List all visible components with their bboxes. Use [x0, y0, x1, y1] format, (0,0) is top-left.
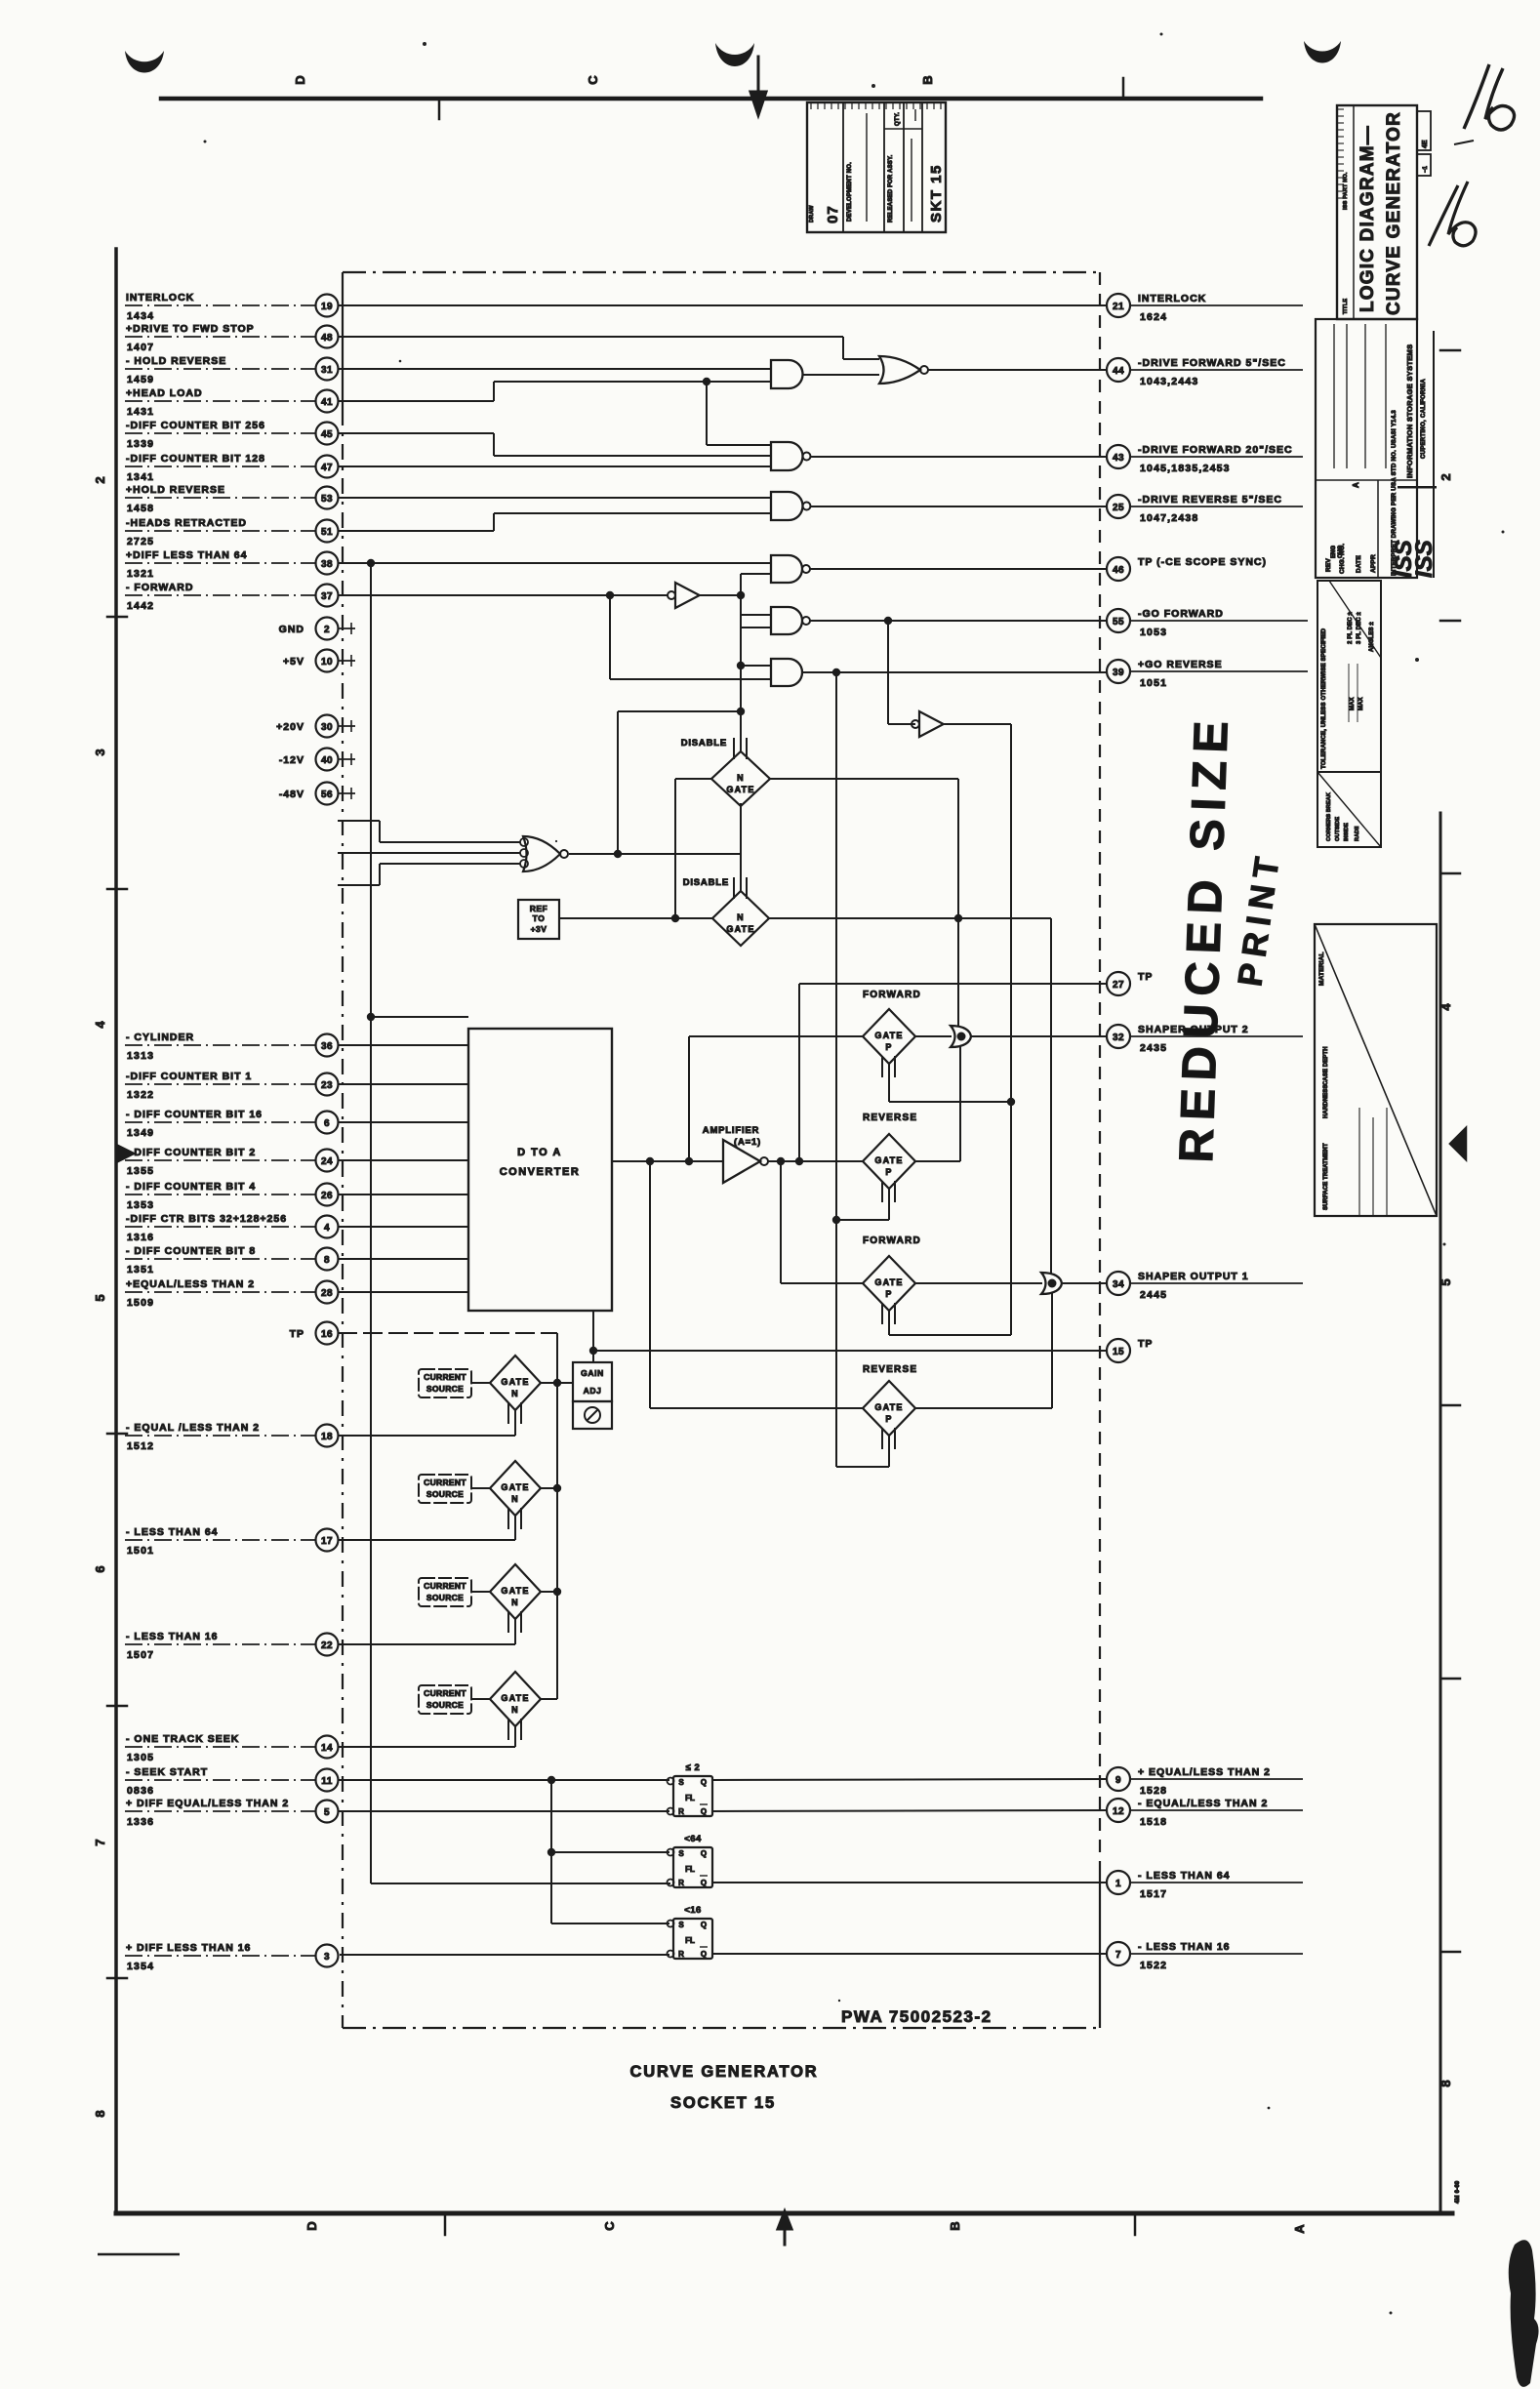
svg-text:CHG: CHG: [1338, 545, 1344, 558]
svg-text:- DIFF COUNTER BIT 8: - DIFF COUNTER BIT 8: [126, 1245, 256, 1257]
svg-text:1339: 1339: [127, 438, 154, 450]
svg-text:-48V: -48V: [279, 789, 304, 800]
pin 48 +DRIVE TO FWD STOP input: [125, 323, 339, 353]
wire net gate N common bus: [541, 1379, 561, 1699]
svg-text:1051: 1051: [1140, 677, 1167, 689]
svg-text:N: N: [511, 1389, 519, 1398]
wire net counter bus top input to D to A: [367, 1013, 468, 1021]
gate U8 NAND output to pin55 -GO FORWARD: [771, 607, 1107, 634]
pin 32 SHAPER OUTPUT 2 output: [1107, 1024, 1303, 1054]
svg-text:+ DIFF LESS THAN 16: + DIFF LESS THAN 16: [126, 1942, 251, 1954]
svg-text:1517: 1517: [1140, 1888, 1167, 1900]
svg-text:2 PL DEC ±: 2 PL DEC ±: [1348, 612, 1354, 644]
amplifier U13 (A=1): [703, 1125, 768, 1183]
wire net N gate1 output to shaper2 tie: [770, 779, 958, 1027]
svg-text:1353: 1353: [127, 1199, 154, 1211]
wire net gate N 4 control tail: [514, 1726, 516, 1747]
pin 15 TP output: [1107, 1338, 1153, 1362]
svg-text:1341: 1341: [127, 471, 154, 483]
svg-text:INTERLOCK: INTERLOCK: [1138, 293, 1206, 304]
wire net +HEAD LOAD pin41 to U1 and U3: [338, 378, 771, 445]
svg-text:- LESS THAN 16: - LESS THAN 16: [126, 1631, 219, 1642]
svg-text:GATE: GATE: [501, 1482, 529, 1492]
box current source 3: [419, 1578, 471, 1606]
wire net +DIFF EQUAL/LESS THAN 2 pin5 to FL1 reset: [338, 1810, 669, 1812]
svg-text:-GO FORWARD: -GO FORWARD: [1138, 608, 1224, 620]
gate U17 reverse gate P 2: [863, 1364, 917, 1449]
box current source 2: [419, 1475, 471, 1503]
svg-text:OUTSIDE: OUTSIDE: [1335, 817, 1341, 841]
svg-text:44: 44: [1113, 366, 1124, 377]
svg-text:43: 43: [1113, 453, 1124, 464]
svg-text:SOURCE: SOURCE: [426, 1593, 464, 1602]
svg-text:PWA 75002523-2: PWA 75002523-2: [841, 2007, 993, 2026]
svg-text:4: 4: [93, 1021, 107, 1029]
svg-text:56: 56: [321, 790, 333, 800]
svg-text:+3V: +3V: [531, 924, 547, 934]
pin 16 TP: [290, 1322, 339, 1345]
svg-text:REVERSE: REVERSE: [863, 1364, 917, 1375]
wire net D to A signal to reverse gate 2: [650, 1161, 863, 1408]
title block: tolerance box: [1317, 581, 1381, 772]
svg-text:S: S: [678, 1921, 684, 1929]
pin 12 - EQUAL/LESS THAN 2 output: [1107, 1798, 1303, 1828]
svg-text:1431: 1431: [127, 406, 154, 418]
inverter U6: [668, 583, 741, 608]
svg-text:31: 31: [321, 365, 333, 376]
pin 19 INTERLOCK input: [125, 292, 339, 322]
svg-text:−1: −1: [1423, 165, 1429, 173]
svg-text:ADJ: ADJ: [584, 1386, 602, 1396]
svg-text:- LESS THAN 16: - LESS THAN 16: [1138, 1941, 1231, 1953]
wire net FL3 Qbar to pin7: [712, 1953, 1107, 1955]
pin 31 - HOLD REVERSE input: [125, 355, 339, 385]
svg-text:1407: 1407: [127, 342, 154, 353]
svg-text:GAIN: GAIN: [581, 1368, 604, 1378]
pin 47 -DIFF COUNTER BIT 128 input: [125, 453, 339, 483]
svg-text:-DIFF COUNTER BIT 128: -DIFF COUNTER BIT 128: [126, 453, 265, 465]
svg-text:+ DIFF EQUAL/LESS THAN 2: + DIFF EQUAL/LESS THAN 2: [126, 1798, 289, 1809]
pin 27 TP output: [1107, 971, 1153, 995]
wire net REF to N gate 2: [559, 914, 712, 922]
svg-text:TP: TP: [1138, 1338, 1153, 1350]
svg-text:- EQUAL /LESS THAN 2: - EQUAL /LESS THAN 2: [126, 1422, 260, 1434]
pin 10 +5V: [283, 650, 355, 672]
svg-text:D TO A: D TO A: [517, 1147, 562, 1158]
pin 5 + DIFF EQUAL/LESS THAN 2 input: [125, 1798, 339, 1828]
gate U9 NOR 3-input with input bubbles: [520, 836, 568, 871]
wire net reverse1 output up to shaper2 tie: [915, 1046, 960, 1161]
svg-text:19: 19: [321, 302, 333, 312]
svg-text:GATE: GATE: [501, 1693, 529, 1703]
svg-text:1045,1835,2453: 1045,1835,2453: [1140, 463, 1231, 474]
svg-text:40: 40: [321, 755, 333, 766]
pin 51 -HEADS RETRACTED input: [125, 517, 339, 547]
box current source 4: [419, 1685, 471, 1714]
pin 43 -DRIVE FORWARD 20"/SEC output: [1107, 444, 1303, 474]
wire net N gate1 left to N gate2 input: [675, 779, 711, 918]
stamp REDUCED SIZE PRINT: [1170, 712, 1287, 1163]
box GAIN ADJ potentiometer: [573, 1362, 612, 1429]
pin 45 -DIFF COUNTER BIT 256 input: [125, 420, 339, 450]
wire net +FORWARD vertical bus: [737, 574, 771, 751]
svg-text:16: 16: [321, 1329, 333, 1340]
svg-text:N: N: [737, 912, 745, 922]
wire net pin22 to gate N3: [338, 1643, 515, 1645]
pin 37 - FORWARD input: [125, 582, 339, 612]
svg-text:REV: REV: [1325, 558, 1332, 572]
svg-text:1528: 1528: [1140, 1785, 1167, 1797]
svg-text:TP: TP: [1138, 971, 1153, 983]
pin 40 -12V: [279, 749, 355, 771]
svg-text:1305: 1305: [127, 1752, 154, 1763]
svg-text:4: 4: [1439, 1003, 1453, 1011]
wire net N gate2 output to shaper1 tie: [769, 914, 1051, 1274]
svg-text:23: 23: [321, 1080, 333, 1091]
junction halfmoon tie shaper output 1: [1041, 1273, 1107, 1294]
pin 18 - EQUAL /LESS THAN 2 input: [125, 1422, 339, 1452]
wire net -LINEAR MODE pin33 to U9: [338, 864, 520, 885]
svg-text:+ EQUAL/LESS THAN 2: + EQUAL/LESS THAN 2: [1138, 1766, 1271, 1778]
svg-text:1512: 1512: [127, 1440, 154, 1452]
wire net U9 output to N-gates: [569, 850, 741, 858]
svg-text:INTERLOCK: INTERLOCK: [126, 292, 194, 304]
svg-text:45: 45: [321, 429, 333, 440]
svg-text:1355: 1355: [127, 1165, 154, 1177]
svg-text:1624: 1624: [1140, 311, 1167, 323]
pin 28 +EQUAL/LESS THAN 2 input: [125, 1278, 339, 1309]
svg-text:17: 17: [321, 1536, 333, 1547]
svg-text:Q: Q: [701, 1950, 707, 1959]
wire net D to A input row y1189: [338, 1159, 468, 1161]
pin 56 -48V: [279, 783, 355, 805]
pin 21 INTERLOCK output: [1107, 293, 1303, 323]
pin 9 + EQUAL/LESS THAN 2 output: [1107, 1766, 1303, 1797]
gate gate N 1: [471, 1356, 557, 1424]
svg-text:- SEEK START: - SEEK START: [126, 1766, 208, 1778]
svg-text:CURRENT: CURRENT: [424, 1688, 466, 1698]
svg-text:A: A: [1292, 2224, 1307, 2234]
wire net pin18 to gate N1: [338, 1435, 515, 1437]
svg-text:+GO REVERSE: +GO REVERSE: [1138, 659, 1223, 670]
gate U15 reverse gate P 1: [863, 1113, 917, 1202]
svg-text:CONVERTER: CONVERTER: [500, 1166, 581, 1178]
gate U16 forward gate P 2: [863, 1235, 921, 1324]
pin 8 - DIFF COUNTER BIT 8 input: [125, 1245, 339, 1275]
svg-text:30: 30: [321, 722, 333, 733]
svg-text:- DIFF COUNTER BIT 16: - DIFF COUNTER BIT 16: [126, 1109, 263, 1120]
svg-text:-HEADS RETRACTED: -HEADS RETRACTED: [126, 517, 247, 529]
svg-text:TP (-CE SCOPE SYNC): TP (-CE SCOPE SYNC): [1138, 556, 1267, 568]
pin 36 - CYLINDER input: [125, 1032, 339, 1062]
svg-text:0836: 0836: [127, 1785, 154, 1797]
svg-text:CURRENT: CURRENT: [424, 1478, 466, 1487]
svg-text:C: C: [602, 2221, 617, 2231]
svg-text:P: P: [885, 1414, 892, 1424]
svg-text:53: 53: [321, 494, 333, 505]
gate U1 AND (drive forward): [771, 360, 879, 388]
pin 55 -GO FORWARD output: [1107, 608, 1308, 638]
svg-text:- CYLINDER: - CYLINDER: [126, 1032, 194, 1043]
svg-text:1434: 1434: [127, 310, 154, 322]
svg-text:SKT 15: SKT 15: [928, 164, 945, 223]
box U12 D TO A CONVERTER: [468, 1029, 612, 1311]
svg-text:D: D: [293, 75, 307, 84]
svg-text:26: 26: [321, 1191, 333, 1201]
wire net -FORWARD pin37 to inverter U6: [338, 591, 668, 599]
svg-text:CORNERS BREAK: CORNERS BREAK: [1326, 792, 1332, 841]
wire net gate N1 output to gain adj: [557, 1382, 573, 1384]
pin 39 +GO REVERSE output: [1107, 659, 1308, 689]
svg-text:1509: 1509: [127, 1297, 154, 1309]
svg-text:HARDNESS: HARDNESS: [1323, 1085, 1329, 1118]
svg-text:N: N: [737, 773, 745, 783]
svg-text:MATERIAL: MATERIAL: [1318, 952, 1325, 986]
gate U2 NOR output to pin44: [879, 356, 1107, 384]
svg-text:TOLERANCE, UNLESS OTHERWISE SP: TOLERANCE, UNLESS OTHERWISE SPECIFIED: [1320, 628, 1327, 769]
svg-text:- LESS THAN 64: - LESS THAN 64: [126, 1526, 219, 1538]
svg-text:S: S: [678, 1778, 684, 1787]
svg-text:1507: 1507: [127, 1649, 154, 1661]
pin 2 GND: [279, 618, 355, 640]
svg-text:3: 3: [324, 1952, 330, 1963]
svg-text:18: 18: [321, 1432, 333, 1442]
svg-text:6: 6: [93, 1565, 107, 1572]
svg-text:- EQUAL/LESS THAN 2: - EQUAL/LESS THAN 2: [1138, 1798, 1268, 1809]
svg-text:CASE DEPTH: CASE DEPTH: [1323, 1046, 1329, 1085]
svg-text:AMPLIFIER: AMPLIFIER: [703, 1125, 759, 1136]
svg-text:-DRIVE REVERSE 5"/SEC: -DRIVE REVERSE 5"/SEC: [1138, 494, 1282, 506]
svg-text:- HOLD REVERSE: - HOLD REVERSE: [126, 355, 226, 367]
svg-text:DISABLE: DISABLE: [683, 877, 729, 888]
pin 23 -DIFF COUNTER BIT 1 input: [125, 1071, 339, 1101]
svg-text:N: N: [511, 1494, 519, 1504]
svg-text:- DIFF COUNTER BIT 4: - DIFF COUNTER BIT 4: [126, 1181, 256, 1193]
svg-text:INFORMATION STORAGE SYSTEMS: INFORMATION STORAGE SYSTEMS: [1405, 344, 1414, 478]
svg-text:28: 28: [321, 1288, 333, 1299]
wire net FL1 Qbar to pin12: [712, 1810, 1107, 1811]
wire net INTERLOCK pin19 to pin21: [338, 304, 1107, 306]
wire net D to A signal to forward gate 1: [689, 1036, 863, 1161]
svg-text:CUPERTINO, CALIFORNIA: CUPERTINO, CALIFORNIA: [1421, 379, 1427, 459]
gate U4 NAND output to pin25: [771, 492, 1107, 520]
pin 25 -DRIVE REVERSE 5"/SEC output: [1107, 494, 1303, 524]
svg-text:2: 2: [1439, 473, 1453, 480]
svg-text:CURVE GENERATOR: CURVE GENERATOR: [630, 2063, 819, 2081]
pin 46 TP (-CE SCOPE SYNC) output: [1107, 556, 1267, 581]
title block: revision table: [1316, 319, 1417, 578]
svg-text:55: 55: [1113, 617, 1124, 628]
svg-text:SOURCE: SOURCE: [426, 1700, 464, 1710]
pin 1 - LESS THAN 64 output: [1107, 1870, 1303, 1900]
svg-text:CURRENT: CURRENT: [424, 1372, 466, 1382]
svg-text:INSIDE: INSIDE: [1344, 823, 1350, 841]
svg-text:+5V: +5V: [283, 656, 304, 668]
svg-text:TITLE: TITLE: [1343, 299, 1349, 314]
svg-text:8: 8: [1439, 2080, 1453, 2086]
pin 4 -DIFF CTR BITS 32+128+256 input: [125, 1213, 339, 1243]
svg-text:D: D: [304, 2221, 319, 2230]
svg-text:FL: FL: [685, 1794, 695, 1802]
svg-text:GATE: GATE: [726, 924, 754, 934]
svg-text:<16: <16: [684, 1905, 702, 1916]
pin 24 - DIFF COUNTER BIT 2 input: [125, 1147, 339, 1177]
flip-flop FL3 less than 16: [668, 1905, 713, 1959]
svg-text:4E: 4E: [1422, 140, 1429, 148]
svg-text:FORWARD: FORWARD: [863, 990, 921, 1000]
gate gate N 4: [471, 1672, 557, 1740]
svg-text:R: R: [678, 1950, 684, 1959]
svg-text:GATE: GATE: [874, 1031, 903, 1040]
svg-text:Q: Q: [701, 1849, 707, 1858]
svg-text:46: 46: [1113, 565, 1124, 576]
svg-text:CURVE GENERATOR: CURVE GENERATOR: [1384, 111, 1404, 315]
svg-text:1313: 1313: [127, 1050, 154, 1062]
svg-text:SOURCE: SOURCE: [426, 1384, 464, 1394]
svg-text:GATE: GATE: [501, 1377, 529, 1387]
wire net -DIFF COUNTER BIT 256 pin45 to U3: [338, 433, 771, 456]
svg-text:P: P: [885, 1289, 892, 1299]
gate U3 NAND output to pin43: [771, 442, 1107, 470]
svg-text:MAX: MAX: [1350, 697, 1356, 710]
svg-text:+HEAD LOAD: +HEAD LOAD: [126, 387, 203, 399]
svg-text:SOCKET 15: SOCKET 15: [670, 2094, 776, 2112]
wire net reverse P control bus: [832, 672, 889, 1467]
wire net D to A input row y1324: [338, 1291, 468, 1293]
svg-text:51: 51: [321, 527, 333, 538]
svg-text:25: 25: [1113, 503, 1124, 513]
svg-text:07: 07: [825, 205, 841, 223]
box REF TO +3V: [518, 900, 559, 939]
wire net gate N 1 control tail: [514, 1410, 516, 1436]
svg-text:8: 8: [324, 1255, 330, 1266]
pin 6 - DIFF COUNTER BIT 16 input: [125, 1109, 339, 1139]
svg-text:37: 37: [321, 591, 333, 602]
wire net pin14 to gate N4: [338, 1746, 515, 1748]
svg-text:4M 6-69: 4M 6-69: [1455, 2180, 1461, 2204]
svg-text:-DIFF COUNTER BIT 256: -DIFF COUNTER BIT 256: [126, 420, 265, 431]
svg-text:REVERSE: REVERSE: [863, 1113, 917, 1123]
svg-text:APPR: APPR: [1370, 554, 1377, 573]
svg-text:5: 5: [324, 1807, 330, 1818]
wire net -SEEK START pin11 to FL set inputs: [338, 1776, 669, 1923]
svg-text:GATE: GATE: [874, 1277, 903, 1287]
tiny print code: [1455, 2180, 1461, 2204]
svg-text:2: 2: [93, 476, 107, 483]
svg-text:A: A: [1352, 482, 1360, 488]
svg-text:7: 7: [1115, 1950, 1121, 1961]
svg-text:ANGLES ±: ANGLES ±: [1369, 622, 1375, 652]
svg-text:22: 22: [321, 1640, 333, 1651]
wire net D to A input row y1224: [338, 1194, 468, 1195]
svg-text:1043,2443: 1043,2443: [1140, 376, 1198, 387]
pin 44 -DRIVE FORWARD 5"/SEC output: [1107, 357, 1303, 387]
wire net -DIFF COUNTER BIT 128 pin47 to U3: [338, 466, 771, 467]
svg-text:S: S: [678, 1849, 684, 1858]
gate U11 disable N gate 2: [683, 877, 769, 946]
svg-text:+DIFF LESS THAN 64: +DIFF LESS THAN 64: [126, 549, 247, 561]
svg-text:QTY.: QTY.: [895, 112, 901, 126]
svg-text:1321: 1321: [127, 568, 154, 580]
svg-text:SURFACE TREATMENT: SURFACE TREATMENT: [1323, 1143, 1329, 1210]
svg-text:TO: TO: [533, 913, 546, 923]
svg-text:3 PL DEC ±: 3 PL DEC ±: [1357, 612, 1362, 644]
gate gate N 2: [471, 1461, 557, 1529]
svg-text:- FORWARD: - FORWARD: [126, 582, 193, 593]
pin 7 - LESS THAN 16 output: [1107, 1941, 1303, 1971]
pin 3 + DIFF LESS THAN 16 input: [125, 1942, 339, 1972]
svg-text:27: 27: [1113, 980, 1124, 991]
svg-text:MAX: MAX: [1358, 697, 1364, 710]
pin 17 - LESS THAN 64 input: [125, 1526, 339, 1557]
svg-text:N: N: [511, 1705, 519, 1715]
svg-text:6: 6: [324, 1118, 330, 1129]
net PWA 75002523-2 board boundary: [343, 272, 1100, 2028]
label CURVE GENERATOR: [630, 2063, 819, 2081]
wire net FL2 Qbar to pin1: [712, 1882, 1107, 1883]
svg-text:N: N: [511, 1598, 519, 1607]
pin 53 +HOLD REVERSE input: [125, 484, 339, 514]
svg-text:R: R: [678, 1879, 684, 1887]
svg-text:2445: 2445: [1140, 1289, 1167, 1301]
junction halfmoon tie shaper output 2: [951, 1026, 1107, 1047]
svg-text:34: 34: [1113, 1279, 1124, 1290]
svg-text:B: B: [948, 2221, 962, 2230]
svg-text:9: 9: [1115, 1775, 1121, 1786]
svg-text:+HOLD REVERSE: +HOLD REVERSE: [126, 484, 225, 496]
svg-text:24: 24: [321, 1156, 333, 1167]
svg-text:DRAW: DRAW: [809, 205, 815, 223]
svg-text:1501: 1501: [127, 1545, 154, 1557]
svg-text:-DIFF CTR BITS 32+128+256: -DIFF CTR BITS 32+128+256: [126, 1213, 287, 1225]
wire bus +DIFF LESS THAN 64 vertical to FL2 reset: [371, 563, 670, 1883]
title block: interpret note + company: [1391, 331, 1434, 578]
svg-text:5: 5: [93, 1294, 107, 1301]
svg-text:32: 32: [1113, 1033, 1124, 1043]
svg-text:12: 12: [1113, 1806, 1124, 1817]
inverter U18 (go reverse to forward gates): [888, 621, 1011, 737]
svg-text:1442: 1442: [127, 600, 154, 612]
svg-text:- ONE TRACK SEEK: - ONE TRACK SEEK: [126, 1733, 239, 1745]
wire net -FORWARD branch to U7 AND input: [610, 595, 771, 679]
wire net +DIFF LESS THAN 16 pin3 to FL3 reset: [340, 1954, 669, 1956]
svg-text:47: 47: [321, 463, 333, 473]
wire net amplifier output to forward gate 2: [781, 1161, 863, 1283]
box release record SKT 15: [807, 102, 946, 232]
svg-text:R: R: [678, 1807, 684, 1816]
pin 30 +20V: [276, 715, 355, 738]
title block: finish box: [1317, 772, 1381, 847]
svg-text:41: 41: [321, 397, 333, 408]
svg-text:- LESS THAN 64: - LESS THAN 64: [1138, 1870, 1231, 1882]
svg-text:GATE: GATE: [726, 785, 754, 794]
svg-text:1518: 1518: [1140, 1816, 1167, 1828]
svg-text:+20V: +20V: [276, 721, 304, 733]
svg-text:P: P: [885, 1167, 892, 1177]
svg-text:RADII: RADII: [1355, 826, 1360, 841]
svg-text:5: 5: [1439, 1278, 1453, 1285]
svg-text:GND: GND: [279, 624, 304, 635]
pin 14 - ONE TRACK SEEK input: [125, 1733, 339, 1763]
wire net disable loop left branch: [618, 711, 741, 854]
flip-flop FL1 equal/less than 2: [668, 1762, 713, 1816]
svg-text:≤ 2: ≤ 2: [686, 1762, 701, 1773]
wire net D to A input row y1111: [338, 1083, 468, 1085]
gate U5 NAND output to pin46: [771, 555, 1107, 583]
wire net +DIFF LESS THAN 64 pin38 to U5 and counter bus: [338, 559, 771, 567]
svg-text:38: 38: [321, 559, 333, 570]
gate U10 disable N gate 1: [681, 738, 770, 806]
